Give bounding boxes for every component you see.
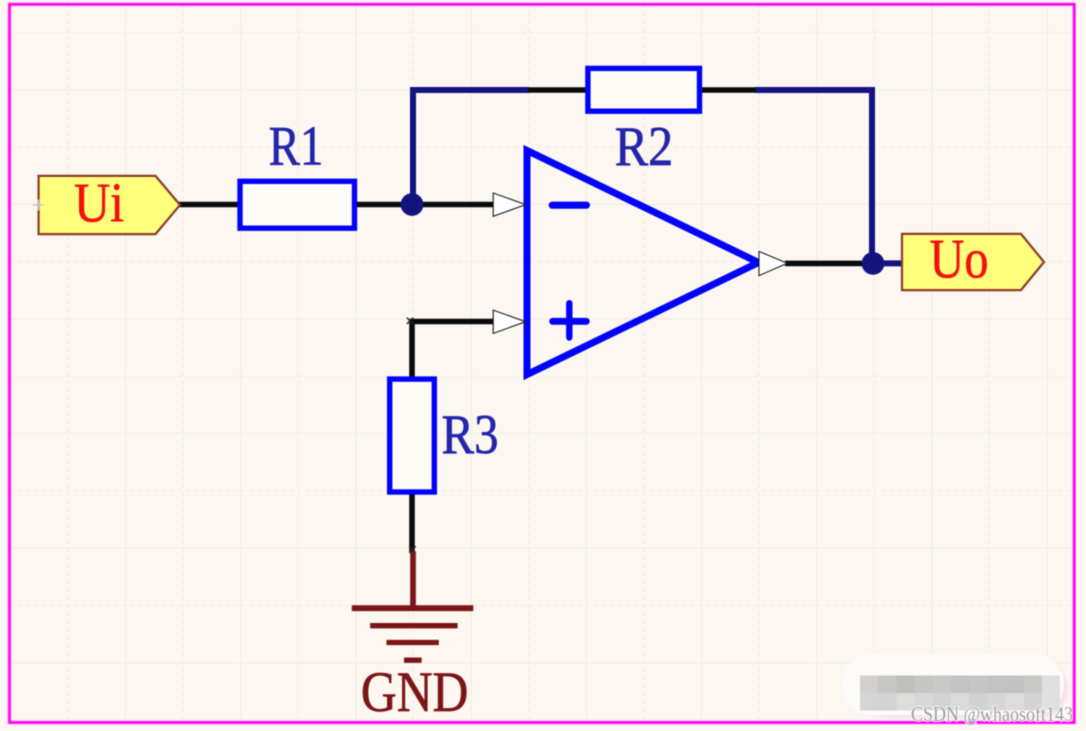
- resistor R2: [588, 68, 700, 177]
- svg-text:Uo: Uo: [930, 228, 989, 290]
- svg-text:CSDN @whaosoft143: CSDN @whaosoft143: [911, 702, 1073, 726]
- wire op-amp output to node B: [785, 261, 873, 267]
- port Ui left-edge marker: [33, 200, 44, 211]
- svg-text:Ui: Ui: [74, 172, 124, 234]
- watermark text: [911, 702, 1073, 726]
- pin arrow inverting input: [493, 193, 525, 216]
- wire feedback right segment and riser to output node (navy): [755, 90, 902, 263]
- wire Ui to R1: [177, 202, 240, 208]
- wire black nub right of R2: [700, 87, 756, 93]
- svg-text:R2: R2: [615, 116, 674, 178]
- pin arrow non-inverting input: [493, 310, 525, 333]
- wire non-inverting input: [412, 322, 495, 380]
- ground GND: [352, 552, 474, 725]
- svg-text:GND: GND: [361, 661, 469, 724]
- wire R3 to ground: [409, 492, 415, 552]
- resistor R1: [240, 116, 355, 229]
- port Uo: [902, 228, 1044, 290]
- watermark mosaic: [860, 675, 1060, 710]
- node B junction dot: [862, 252, 885, 275]
- wire node A to inverting input pin: [414, 202, 495, 208]
- wire black nub left of R2: [528, 87, 587, 93]
- pin junction x marker at non-inverting corner: [407, 318, 413, 324]
- svg-text:R1: R1: [269, 116, 324, 178]
- wire R1 to node A: [355, 202, 414, 208]
- wire feedback left riser and top segment (navy): [413, 90, 529, 205]
- port Ui: [39, 172, 180, 234]
- op-amp U1: [527, 151, 759, 375]
- svg-text:R3: R3: [442, 404, 499, 466]
- node A junction dot: [401, 193, 424, 216]
- watermark bubble: [842, 654, 1068, 718]
- resistor R3: [390, 379, 499, 492]
- pin junction x marker above ground: [409, 546, 415, 552]
- pin arrow output: [759, 251, 787, 275]
